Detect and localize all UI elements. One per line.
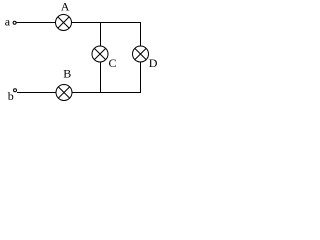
svg-text:C: C xyxy=(109,56,117,70)
svg-text:b: b xyxy=(8,89,14,103)
svg-text:a: a xyxy=(5,15,11,29)
svg-text:D: D xyxy=(149,56,158,70)
svg-text:B: B xyxy=(63,67,71,81)
svg-text:A: A xyxy=(61,0,70,14)
